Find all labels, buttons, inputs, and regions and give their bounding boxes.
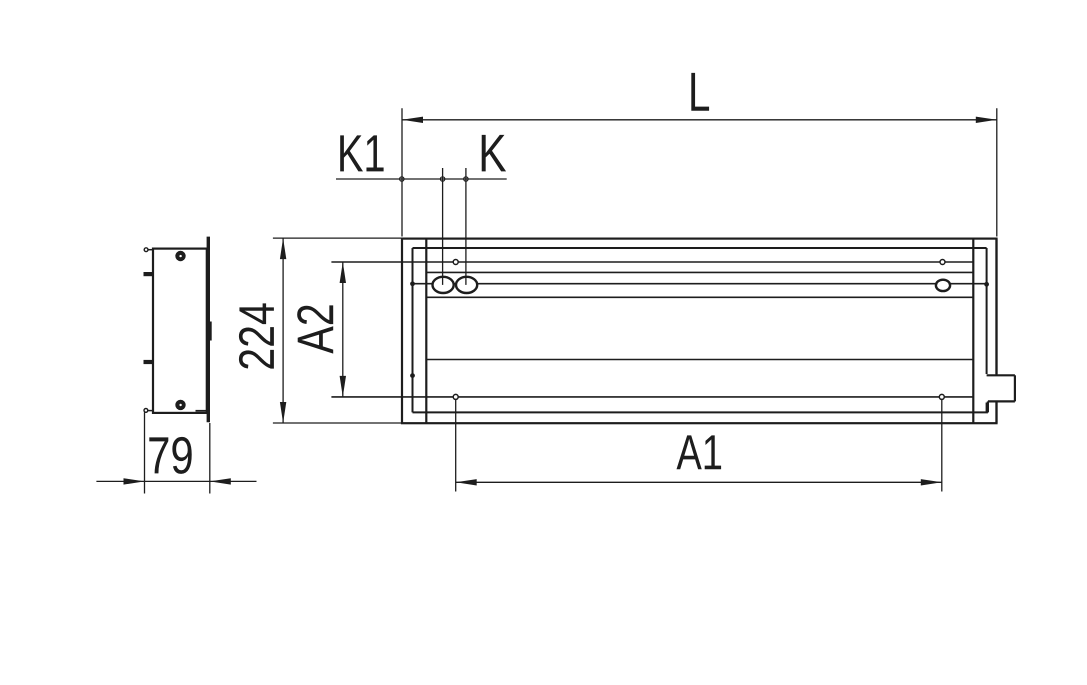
inner frame right vertical upper segment (986, 248, 988, 374)
side view latch bump (210, 322, 212, 341)
dimension L left arrow (402, 117, 423, 123)
inner frame bottom horizontal (413, 411, 988, 413)
mounting hole top-right (940, 260, 945, 265)
dimension L right extension line (996, 108, 998, 236)
dimension L left extension line (401, 108, 403, 236)
side view top-left pin stub (146, 249, 153, 251)
dimension A2 dim line (342, 262, 344, 397)
side view lower screw (175, 400, 185, 410)
dimension L line (402, 119, 997, 121)
main view body right edge (972, 239, 974, 424)
interior line 2 (426, 271, 973, 273)
dimension A2 text (297, 305, 333, 353)
mounting hole top-left (453, 260, 458, 265)
mounting hole bottom-left (453, 394, 458, 399)
interior line 4 (426, 296, 973, 298)
K reference circle 3 on leader (464, 177, 468, 181)
dimension A1 text (677, 435, 722, 469)
mounting slot oval right (936, 280, 950, 291)
dimension 79 left arrow (124, 478, 145, 484)
main view outer frame rectangle (402, 239, 997, 424)
dimension L right arrow (976, 117, 997, 123)
main view body left edge (425, 239, 427, 424)
interior line through bottom holes (331, 396, 973, 398)
side view bottom-left pin stub (146, 410, 154, 412)
right tab step vertical (987, 401, 989, 412)
dimension 79 line (96, 480, 256, 482)
hinge pin right upper (984, 282, 989, 287)
dimension 224 line (282, 238, 284, 423)
dimension 224 bottom arrow (280, 402, 286, 423)
right tab eraser (986, 374, 1017, 403)
side view top-left pin circle (144, 248, 148, 252)
dimension 224 top arrow (280, 238, 286, 259)
outer frame right edge lower segment (995, 401, 997, 423)
hinge pin left upper (410, 281, 415, 286)
mounting slot oval left 2 (456, 277, 477, 293)
side view upper side pin (144, 272, 154, 276)
dimension A1 left arrow (456, 479, 477, 485)
hinge pin left lower (410, 373, 415, 378)
dimension A1 right arrow (921, 479, 942, 485)
dimension 79 extension line right (209, 423, 211, 494)
dimension A1 right extension line (941, 399, 943, 492)
mounting hole bottom-right (939, 394, 944, 399)
dimension 79 extension line left (144, 412, 146, 493)
dimension A1 left extension line (455, 399, 457, 492)
side view bottom step line (196, 410, 207, 412)
right tab top edge (987, 374, 1015, 376)
K reference circle 2 on leader (440, 177, 444, 181)
mounting slot oval left 1 (433, 277, 454, 293)
dimension 224 bottom extension line (273, 422, 402, 424)
outer frame right edge upper segment (995, 239, 997, 376)
right tab bottom edge (988, 400, 1015, 402)
inner frame left vertical (412, 248, 414, 412)
K1 text (340, 135, 383, 171)
K leader line (336, 178, 507, 180)
side view main body rectangle (153, 249, 207, 413)
interior line through slots (413, 283, 987, 285)
right tab right edge (1014, 375, 1016, 401)
dimension 224 top extension line (273, 237, 402, 239)
inner frame top horizontal (413, 247, 987, 249)
K extension vertical to slot 2 (465, 168, 467, 285)
dimension 79 right arrow (210, 478, 231, 484)
interior line 5 (426, 359, 973, 361)
dimension A1 line (456, 481, 942, 483)
side view bottom-left pin circle (144, 409, 148, 413)
K text (482, 135, 506, 172)
side view lower side pin (144, 360, 154, 364)
K1 extension vertical to slot 1 (442, 168, 444, 285)
dimension A2 top arrow (340, 262, 346, 283)
K1 reference circle on leader (400, 177, 404, 181)
dimension L text (691, 73, 709, 111)
dimension 224 text (239, 303, 274, 368)
dimension 79 text (149, 437, 191, 474)
side view mounting flange plate (207, 237, 210, 423)
side view upper screw (175, 251, 185, 261)
dimension A2 bottom arrow (340, 376, 346, 397)
interior line through top holes (331, 261, 973, 263)
inner frame right vertical lower segment (986, 401, 988, 412)
